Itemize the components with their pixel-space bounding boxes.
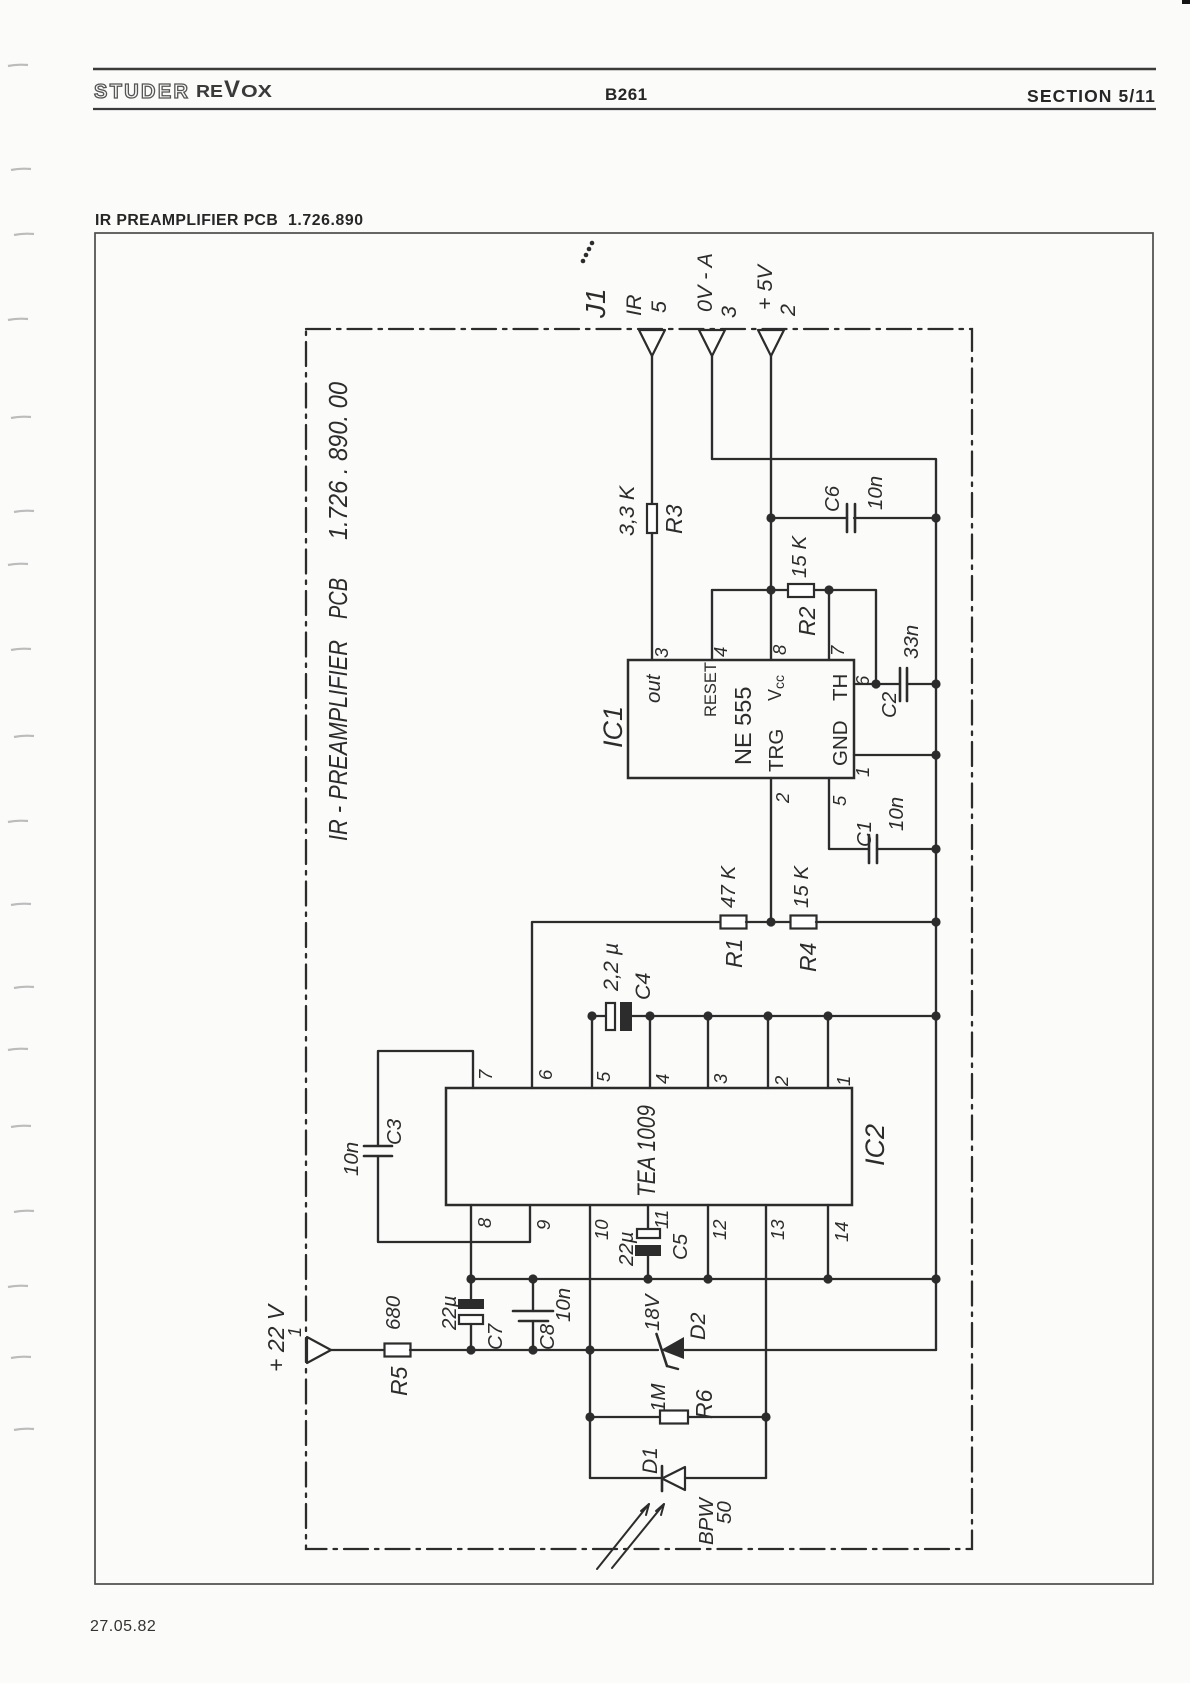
svg-text:2: 2 xyxy=(776,304,800,317)
wire IC2 pin11 to C5 xyxy=(647,1205,649,1229)
svg-text:10n: 10n xyxy=(552,1288,575,1322)
logo REVOX xyxy=(196,76,272,103)
wire TH to C2 xyxy=(854,683,900,685)
svg-text:R5: R5 xyxy=(386,1366,412,1396)
svg-text:15 K: 15 K xyxy=(788,535,811,578)
capacitor C6 xyxy=(771,476,936,532)
svg-text:C3: C3 xyxy=(383,1118,406,1145)
frame around schematic xyxy=(95,233,1153,1584)
svg-text:RESET: RESET xyxy=(702,662,720,717)
svg-text:22µ: 22µ xyxy=(615,1231,638,1267)
svg-text:1: 1 xyxy=(833,1076,854,1086)
svg-text:out: out xyxy=(642,673,665,703)
svg-text:22µ: 22µ xyxy=(438,1295,461,1331)
svg-text:50: 50 xyxy=(713,1501,736,1524)
junction R6 right xyxy=(761,1412,770,1421)
connector pin J1-1 (+22V) xyxy=(307,1337,331,1363)
junction C6/ground rail xyxy=(931,513,940,522)
wire R6 row xyxy=(590,1416,660,1418)
resistor R6 xyxy=(647,1383,717,1424)
svg-text:0V - A: 0V - A xyxy=(693,253,717,312)
svg-text:TRG: TRG xyxy=(765,729,788,772)
capacitor C5 (electrolytic 22u) xyxy=(615,1229,692,1279)
svg-text:R3: R3 xyxy=(661,504,687,534)
resistor R4 xyxy=(790,865,821,972)
wire IC2 pin8 down xyxy=(470,1205,472,1279)
svg-text:4: 4 xyxy=(652,1074,673,1084)
wire IC2 pin1 xyxy=(827,1016,829,1088)
wire IC1 pin4 to RESET rail xyxy=(711,590,713,660)
connector pin J1-3 (0V-A) xyxy=(699,330,725,356)
svg-text:RE: RE xyxy=(196,81,223,101)
wire C4 bus to ground rail xyxy=(632,1015,936,1017)
svg-text:2: 2 xyxy=(772,792,793,804)
capacitor C1 xyxy=(853,797,936,863)
photodiode D1 (BPW50) xyxy=(639,1447,685,1491)
svg-text:3,3 K: 3,3 K xyxy=(615,484,639,536)
wire IC2 pin14 down xyxy=(827,1205,829,1279)
svg-text:TH: TH xyxy=(829,674,852,701)
diode D2 (zener 18V) xyxy=(641,1292,710,1369)
svg-text:C7: C7 xyxy=(484,1322,507,1350)
svg-text:C5: C5 xyxy=(669,1233,692,1260)
wire lower ground bus xyxy=(471,1278,936,1280)
wire R3 to IC1 pin 3 xyxy=(651,533,653,660)
svg-text:15 K: 15 K xyxy=(790,865,813,908)
svg-text:7: 7 xyxy=(827,645,848,656)
junction pin12/bus xyxy=(703,1274,712,1283)
op-amp/timer IC1 box xyxy=(628,660,854,778)
junction R4/ground rail xyxy=(931,917,940,926)
junction C7/+22V xyxy=(466,1345,475,1354)
light arrows into D1 xyxy=(597,1504,664,1569)
wire IC2 pin12 down xyxy=(707,1205,709,1279)
svg-text:1.726 . 890. 00: 1.726 . 890. 00 xyxy=(325,382,353,540)
wire J1-2 (+5V) down to IC1 pin 8 xyxy=(770,356,772,660)
wire R2 to TH drop xyxy=(814,590,876,684)
svg-text:B261: B261 xyxy=(605,85,648,104)
wire IC2 pin2 xyxy=(767,1016,769,1088)
wire J1-3 down (0V-A) xyxy=(711,356,713,459)
wire IC1 pin7 up xyxy=(828,590,830,660)
corner mark xyxy=(1182,0,1190,4)
svg-text:680: 680 xyxy=(382,1295,405,1330)
svg-text:IC2: IC2 xyxy=(860,1124,890,1166)
svg-text:8: 8 xyxy=(474,1217,495,1228)
wire GND pin to ground rail xyxy=(854,754,936,756)
PCB outline (dash-dot board border) xyxy=(306,329,972,1549)
wire +22V feed xyxy=(331,1349,385,1351)
svg-text:STUDER: STUDER xyxy=(94,81,190,103)
svg-text:11: 11 xyxy=(651,1210,672,1229)
wire IC2 pin4 xyxy=(649,1016,651,1088)
wire R5 to D2 xyxy=(410,1349,658,1351)
capacitor C4 (electrolytic 2.2u) xyxy=(592,943,655,1031)
svg-text:5: 5 xyxy=(593,1071,614,1082)
capacitor C8 xyxy=(513,1279,575,1350)
junction pin10 line/+22V xyxy=(585,1345,594,1354)
svg-text:C8: C8 xyxy=(536,1323,559,1350)
svg-text:OX: OX xyxy=(241,81,272,101)
junction bus/ground rail xyxy=(931,1274,940,1283)
svg-text:C6: C6 xyxy=(821,485,844,512)
junction GND/ground rail xyxy=(931,750,940,759)
junction TH/R2 drop xyxy=(871,679,880,688)
svg-text:9: 9 xyxy=(533,1220,554,1230)
svg-text:3: 3 xyxy=(651,647,672,658)
wire IC2 pin13 down to D1 loop xyxy=(765,1205,767,1478)
resistor R2 xyxy=(788,535,820,636)
wire 0V-A across to right rail xyxy=(712,459,936,518)
svg-text:PCB: PCB xyxy=(325,578,353,619)
junction bus/pin3 xyxy=(703,1011,712,1020)
header rule bottom xyxy=(93,108,1156,110)
junction +5V/R2 rail xyxy=(766,585,775,594)
svg-text:2,2 µ: 2,2 µ xyxy=(599,943,623,992)
svg-text:3: 3 xyxy=(710,1073,731,1084)
svg-text:IR: IR xyxy=(622,295,646,317)
header rule top xyxy=(93,68,1156,70)
svg-text:SECTION 5/11: SECTION 5/11 xyxy=(1027,86,1156,106)
svg-text:R4: R4 xyxy=(795,943,821,972)
svg-text:14: 14 xyxy=(831,1221,852,1242)
junction C8/bus xyxy=(528,1274,537,1283)
wire RESET rail xyxy=(712,589,788,591)
wire D2 to ground rail corner xyxy=(684,1349,936,1351)
svg-text:10n: 10n xyxy=(885,797,908,831)
wire IC2 pin10 down xyxy=(589,1205,591,1478)
svg-text:+ 5V: + 5V xyxy=(753,263,777,310)
junction bus/pin2 xyxy=(763,1011,772,1020)
capacitor C3 xyxy=(340,1118,406,1176)
svg-text:2: 2 xyxy=(771,1075,792,1087)
svg-text:NE 555: NE 555 xyxy=(730,687,756,765)
svg-text:R1: R1 xyxy=(721,939,747,968)
wire R1 to R4 xyxy=(746,921,791,923)
svg-text:GND: GND xyxy=(829,720,852,766)
svg-text:5: 5 xyxy=(829,795,850,806)
resistor R1 xyxy=(717,865,747,968)
wire J1-5 to R3 xyxy=(651,356,653,504)
ground rail (right vertical 0V-A) xyxy=(935,518,937,1350)
svg-text:IR - PREAMPLIFIER: IR - PREAMPLIFIER xyxy=(325,640,353,841)
wire IC2 pin7 to C3 loop xyxy=(378,1051,473,1146)
wire D1 row left xyxy=(590,1477,662,1479)
svg-text:12: 12 xyxy=(709,1219,730,1240)
svg-text:7: 7 xyxy=(475,1069,496,1080)
junction C2/ground rail xyxy=(931,679,940,688)
amplifier IC2 box xyxy=(446,1088,852,1205)
junction bus/pin4 xyxy=(645,1011,654,1020)
svg-text:1M: 1M xyxy=(647,1383,670,1412)
junction pin14/bus xyxy=(823,1274,832,1283)
svg-text:47 K: 47 K xyxy=(717,865,740,908)
svg-text:5: 5 xyxy=(647,300,671,313)
svg-text:1: 1 xyxy=(285,1327,305,1337)
junction bus/pin5 xyxy=(587,1011,596,1020)
svg-text:R6: R6 xyxy=(691,1389,717,1419)
wire IC2 pin3 xyxy=(707,1016,709,1088)
resistor R3 xyxy=(615,484,687,536)
junction TRG/R1/R4 xyxy=(766,917,775,926)
svg-text:3: 3 xyxy=(717,306,741,318)
svg-text:33n: 33n xyxy=(900,625,923,659)
wire IC1 pin5 to C1 xyxy=(829,778,869,849)
junction C6/+5V xyxy=(766,513,775,522)
svg-text:27.05.82: 27.05.82 xyxy=(90,1618,156,1635)
connector pin J1-5 (IR) xyxy=(639,330,665,356)
svg-text:1: 1 xyxy=(852,767,873,777)
junction bus/ground rail xyxy=(931,1011,940,1020)
svg-text:10n: 10n xyxy=(864,476,887,510)
svg-text:D2: D2 xyxy=(686,1312,710,1340)
svg-text:8: 8 xyxy=(769,644,790,655)
wire IC2 pin5 tee xyxy=(591,1016,593,1088)
part label BPW 50 xyxy=(695,1497,736,1545)
wire R4 to ground rail xyxy=(816,921,936,923)
svg-text:J1: J1 xyxy=(580,288,611,319)
wire IC2 pin6 to R1 xyxy=(532,922,721,1088)
svg-text:10: 10 xyxy=(591,1219,612,1240)
svg-text:6: 6 xyxy=(535,1069,556,1080)
svg-text:IR PREAMPLIFIER PCB: IR PREAMPLIFIER PCB xyxy=(95,212,278,229)
svg-text:10n: 10n xyxy=(340,1142,363,1176)
svg-text:1.726.890: 1.726.890 xyxy=(288,212,364,229)
svg-text:D1: D1 xyxy=(639,1447,662,1474)
junction bus/pin1 xyxy=(823,1011,832,1020)
svg-text:TEA 1009: TEA 1009 xyxy=(633,1105,661,1197)
wire D1 row right xyxy=(685,1477,766,1479)
junction R6 left xyxy=(585,1412,594,1421)
svg-text:IC1: IC1 xyxy=(598,706,628,748)
junction pin8/bus xyxy=(466,1274,475,1283)
capacitor C2 xyxy=(878,625,936,718)
svg-text:R2: R2 xyxy=(794,606,820,636)
svg-text:C2: C2 xyxy=(878,691,901,718)
connector pin J1-2 (+5V) xyxy=(758,330,784,356)
capacitor C7 (electrolytic 22u) xyxy=(438,1279,507,1350)
wire C3 to IC2 pin9 xyxy=(378,1156,530,1242)
junction C1/ground rail xyxy=(931,844,940,853)
junction pin7/R2 xyxy=(824,585,833,594)
junction C8/+22V xyxy=(528,1345,537,1354)
svg-text:13: 13 xyxy=(767,1219,788,1240)
svg-text:18V: 18V xyxy=(641,1292,664,1331)
svg-text:V: V xyxy=(224,76,240,103)
wire R6 to pin13 line xyxy=(688,1416,766,1418)
svg-text:4: 4 xyxy=(710,647,731,657)
resistor R5 xyxy=(382,1295,412,1396)
svg-text:C1: C1 xyxy=(853,821,876,847)
wire IC1 pin2 TRG down xyxy=(770,778,772,922)
junction C5/bus xyxy=(643,1274,652,1283)
svg-text:C4: C4 xyxy=(631,972,655,1000)
